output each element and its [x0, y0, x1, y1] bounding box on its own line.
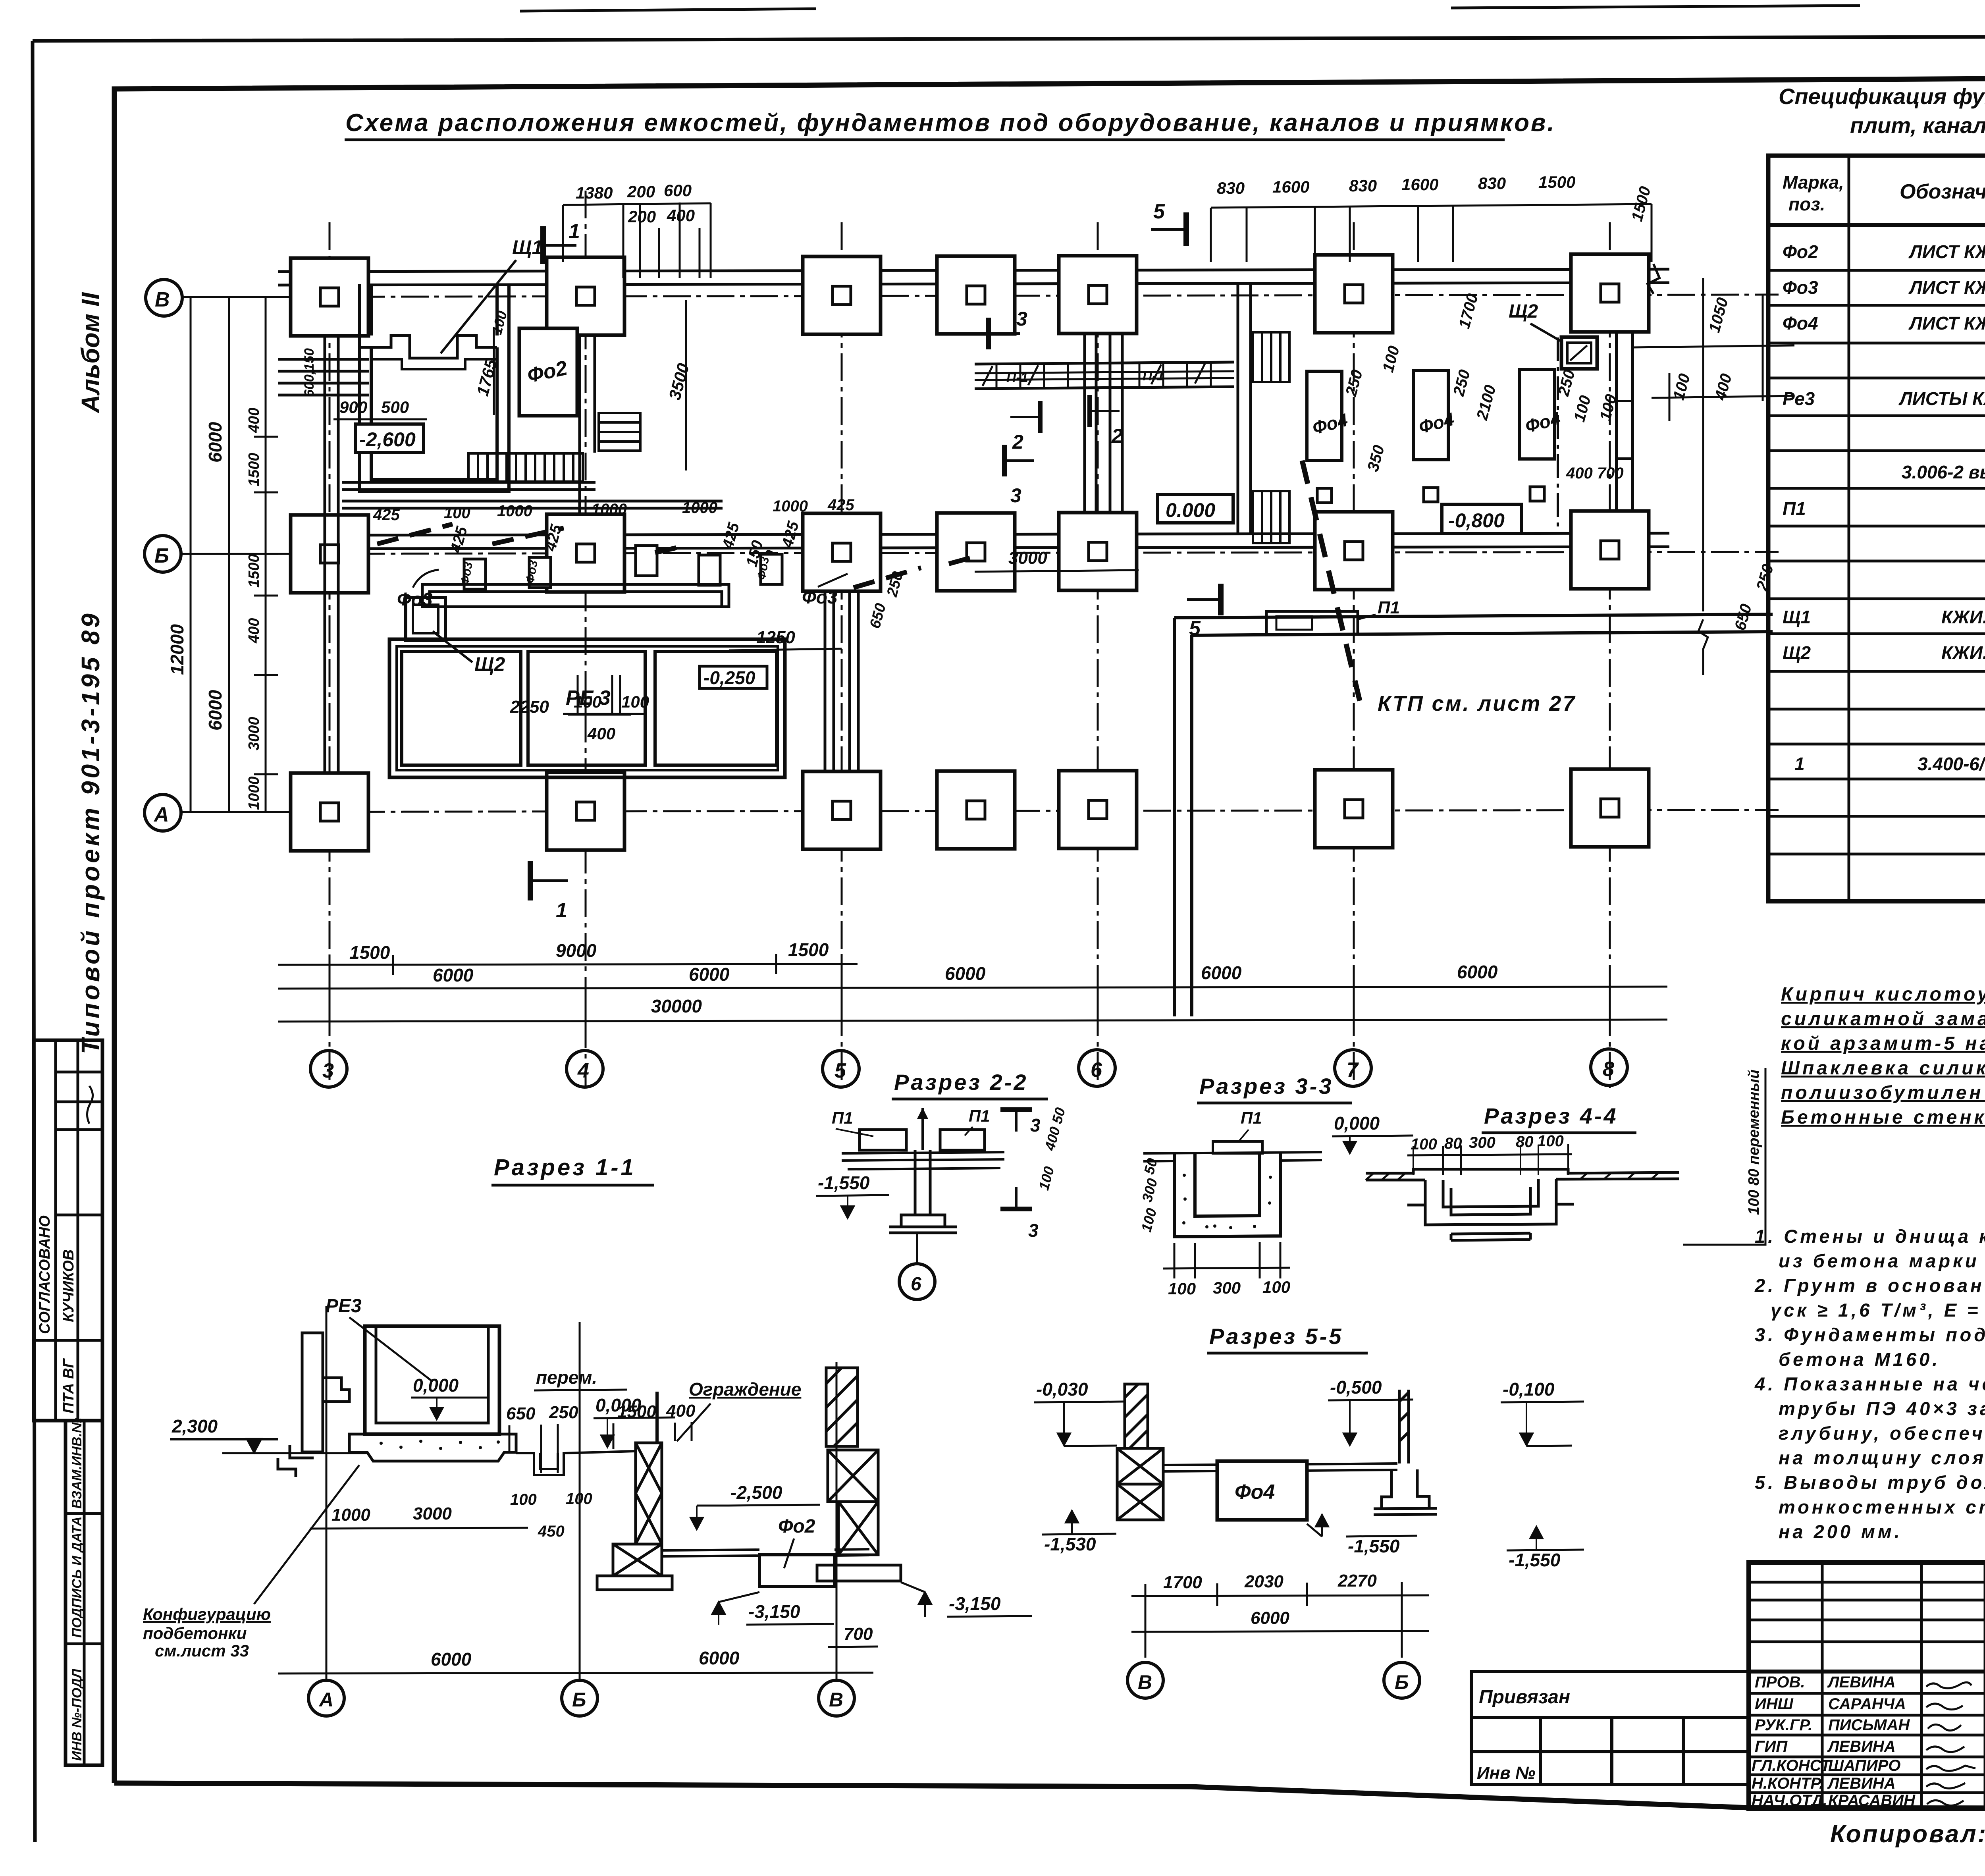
cell 3 — [655, 652, 777, 765]
footing Б6 — [1059, 513, 1137, 590]
svg-text:-0,250: -0,250 — [703, 667, 755, 688]
section 1-1 note Конфигурацию — [143, 1605, 271, 1660]
foundation beams row Б — [330, 533, 1669, 549]
svg-text:300: 300 — [1469, 1134, 1495, 1151]
section 1-1 left column — [278, 1333, 349, 1477]
section 1-1 Фо2 — [759, 1555, 834, 1587]
section 1-1 right wall column — [817, 1368, 901, 1581]
svg-text:Разрез 4-4: Разрез 4-4 — [1484, 1103, 1618, 1128]
section 4-4 leader from notes — [1683, 1068, 1765, 1245]
svg-text:400: 400 — [246, 618, 262, 644]
svg-text:100 80 переменный: 100 80 переменный — [1746, 1070, 1762, 1215]
svg-text:3: 3 — [1016, 308, 1027, 330]
left margin stamp table upper — [34, 1040, 102, 1421]
svg-text:9000: 9000 — [556, 940, 597, 961]
svg-text:500: 500 — [381, 398, 409, 416]
svg-text:перем.: перем. — [536, 1367, 597, 1388]
svg-text:кой арзамит-5 на глубину 15: кой арзамит-5 на глубину 15 мм — [1781, 1033, 1985, 1054]
svg-text:ВЗАМ.ИНВ.№: ВЗАМ.ИНВ.№ — [69, 1417, 85, 1509]
section mark 1 bottom — [530, 861, 568, 900]
footing А4 — [547, 772, 624, 850]
svg-text:Щ2: Щ2 — [1509, 301, 1538, 322]
svg-text:1500: 1500 — [349, 942, 390, 963]
svg-text:ЛИСТЫ КЖ-34,35: ЛИСТЫ КЖ-34,35 — [1898, 388, 1985, 409]
footing А7 — [1315, 770, 1393, 848]
footing В5а — [937, 256, 1015, 334]
footing А8 — [1571, 769, 1649, 847]
specification table grid — [1768, 156, 1985, 901]
section 3-3 dims left rotated — [1138, 1157, 1160, 1234]
svg-text:Кирпич кислотоупорный в 1/4 к: Кирпич кислотоупорный в 1/4 кирпича на — [1781, 984, 1985, 1005]
svg-text:6000: 6000 — [205, 422, 225, 463]
svg-text:РЕ3: РЕ3 — [326, 1296, 362, 1317]
svg-text:3000: 3000 — [1008, 548, 1047, 568]
svg-text:6: 6 — [1091, 1059, 1102, 1082]
svg-text:700: 700 — [844, 1624, 873, 1644]
equipment foundation Фо4 #2 — [1413, 370, 1448, 460]
svg-text:250: 250 — [549, 1403, 578, 1422]
footing А3 — [291, 773, 368, 851]
section 3-3 dims bottom — [1163, 1242, 1290, 1278]
axis circle 6 — [1079, 1050, 1115, 1086]
svg-text:1000: 1000 — [331, 1505, 370, 1525]
svg-text:Разрез 2-2: Разрез 2-2 — [894, 1070, 1028, 1095]
svg-text:425: 425 — [827, 496, 854, 514]
top dim chain right 830/1600 — [1217, 173, 1575, 197]
column footings grid — [291, 254, 1649, 851]
svg-text:Щ2: Щ2 — [1783, 642, 1811, 663]
svg-text:Фо4: Фо4 — [1783, 313, 1818, 334]
section 5-5 dims — [1131, 1582, 1429, 1642]
dim 3500 — [685, 300, 687, 470]
svg-text:6000: 6000 — [431, 1649, 472, 1670]
svg-text:ПРОВ.: ПРОВ. — [1755, 1674, 1805, 1691]
svg-text:В: В — [1138, 1671, 1152, 1693]
svg-text:А: А — [153, 803, 169, 826]
svg-text:3: 3 — [322, 1059, 334, 1082]
svg-text:плит, каналов и приямков.: плит, каналов и приямков. — [1850, 113, 1985, 138]
section 2-2 circle 6 — [916, 1233, 918, 1263]
svg-text:400: 400 — [666, 1401, 696, 1421]
svg-text:300: 300 — [1213, 1278, 1241, 1297]
section 1-1 tank РЕ3 — [365, 1326, 499, 1434]
svg-text:650: 650 — [506, 1404, 536, 1423]
svg-text:1: 1 — [1794, 754, 1805, 774]
axis circle 3 — [310, 1051, 347, 1087]
svg-text:силикатной замазке с разделкой: силикатной замазке с разделкой швов зама… — [1781, 1008, 1985, 1030]
svg-text:Конфигурацию: Конфигурацию — [143, 1605, 271, 1623]
section 3-3 top slab — [1143, 1152, 1322, 1161]
stair main hatch — [468, 453, 583, 482]
right wall axis 8 В-Б — [1617, 333, 1632, 512]
dash-dot partition right room — [1557, 337, 1559, 532]
svg-text:П-1: П-1 — [1006, 370, 1028, 385]
svg-text:Схема расположения емкостей,: Схема расположения емкостей, фундаментов… — [345, 109, 1556, 137]
svg-text:Привязан: Привязан — [1479, 1687, 1570, 1708]
level box -0.250 — [700, 666, 767, 688]
svg-text:поз.: поз. — [1788, 194, 1825, 214]
axis circle 4 — [567, 1051, 603, 1087]
svg-text:Инв №: Инв № — [1477, 1763, 1535, 1783]
svg-text:трубы ПЭ 40×3 заложить в: трубы ПЭ 40×3 заложить в конструкцию пол… — [1779, 1398, 1985, 1419]
svg-text:6000: 6000 — [945, 963, 986, 984]
svg-text:3000: 3000 — [246, 717, 262, 750]
svg-text:6000: 6000 — [1457, 962, 1498, 982]
section 2-2 slab — [842, 1152, 1004, 1169]
svg-text:П1: П1 — [1241, 1109, 1262, 1127]
grid axis dash-dot lines — [183, 191, 1779, 1088]
svg-text:1380: 1380 — [576, 183, 613, 202]
svg-text:ЛЕВИНА: ЛЕВИНА — [1827, 1674, 1896, 1691]
axis circle А — [145, 794, 181, 831]
svg-text:глубину, обеспечивающую замон: глубину, обеспечивающую замоноличивание … — [1779, 1423, 1985, 1444]
equipment foundation Фо4 #3 — [1520, 370, 1555, 459]
svg-text:бетона М160.: бетона М160. — [1779, 1349, 1940, 1370]
svg-text:200: 200 — [627, 182, 655, 201]
section 5-5 slab lines — [1163, 1463, 1397, 1471]
svg-text:ЛЕВИНА: ЛЕВИНА — [1827, 1775, 1896, 1792]
svg-text:-1,530: -1,530 — [1044, 1534, 1096, 1554]
svg-text:П1: П1 — [969, 1107, 990, 1125]
section 2-2 dims right — [1035, 1106, 1068, 1192]
svg-text:100: 100 — [566, 1490, 592, 1508]
svg-text:Разрез 1-1: Разрез 1-1 — [494, 1155, 636, 1180]
svg-text:Марка,: Марка, — [1783, 172, 1844, 193]
section 5-5 axis circles — [1145, 1642, 1147, 1662]
long channel below Б with Щ2 — [406, 584, 729, 640]
break mark on В beam — [1648, 264, 1659, 294]
svg-text:-0,030: -0,030 — [1036, 1379, 1088, 1400]
svg-text:П1: П1 — [1378, 598, 1400, 617]
svg-text:ЛИСТ КЖ-27: ЛИСТ КЖ-27 — [1908, 241, 1985, 262]
section 1-1 axis circle Б — [562, 1680, 597, 1716]
section 3-3 U channel — [1174, 1153, 1280, 1237]
svg-text:830: 830 — [1217, 179, 1245, 197]
section 2-2 П1 plates — [860, 1130, 985, 1150]
cell 1 — [402, 652, 521, 765]
svg-text:6: 6 — [911, 1274, 921, 1295]
section 5-5 right column — [1374, 1390, 1437, 1515]
section marks 2 and 3 — [989, 318, 1020, 349]
section mark 1 top — [543, 226, 576, 264]
stairs hatch lower central — [1253, 491, 1289, 543]
svg-text:-1,550: -1,550 — [1509, 1550, 1561, 1570]
section 1-1 dims 650 250 1500 400 — [506, 1401, 696, 1423]
svg-text:6000: 6000 — [689, 964, 730, 985]
svg-text:Б: Б — [154, 544, 169, 567]
svg-text:600,150: 600,150 — [302, 348, 317, 397]
svg-text:Бетонные стенки и днище канала: Бетонные стенки и днище канала — [1781, 1107, 1985, 1128]
svg-text:Н.КОНТР.: Н.КОНТР. — [1752, 1775, 1823, 1792]
top dims 1380 200 600 — [576, 181, 695, 226]
svg-text:1600: 1600 — [1401, 175, 1438, 194]
svg-text:Спецификация фундаментов под: Спецификация фундаментов под оборудовани… — [1779, 84, 1985, 109]
dashed pipe diagonals left — [377, 524, 981, 588]
section 1-1 X-braced column at Б — [597, 1443, 672, 1590]
left dimension chains — [181, 297, 278, 812]
section 1-1 tank base slab — [349, 1434, 516, 1461]
svg-text:см.лист 33: см.лист 33 — [155, 1641, 249, 1660]
svg-text:1500: 1500 — [246, 453, 262, 486]
svg-text:Б: Б — [572, 1689, 586, 1711]
axis circle 7 — [1335, 1050, 1371, 1086]
svg-text:В: В — [155, 288, 170, 311]
axis circle 8 — [1591, 1049, 1627, 1085]
section 2-2 marks 3 — [1000, 1110, 1032, 1132]
svg-text:1500: 1500 — [1538, 173, 1575, 191]
svg-text:1600: 1600 — [1272, 177, 1309, 196]
footing А6 — [1059, 771, 1137, 848]
svg-text:100: 100 — [1168, 1279, 1196, 1298]
specification table title — [1779, 84, 1985, 138]
notes numbered list — [1754, 1226, 1985, 1542]
svg-text:2270: 2270 — [1337, 1571, 1377, 1591]
svg-text:5. Выводы труб должны быть: 5. Выводы труб должны быть защищены отре… — [1755, 1472, 1985, 1493]
svg-text:900: 900 — [339, 398, 367, 416]
axis circle В — [146, 280, 182, 316]
svg-text:5: 5 — [1153, 200, 1165, 223]
svg-text:ГЛ.КОНСТ: ГЛ.КОНСТ — [1752, 1757, 1832, 1774]
П1 channel piece near Б — [1266, 611, 1358, 634]
svg-text:100: 100 — [1411, 1136, 1437, 1153]
section 4-4 dims above — [1411, 1132, 1564, 1153]
section 4-4 slab with trench — [1366, 1169, 1679, 1240]
svg-text:Фо3: Фо3 — [1783, 277, 1818, 298]
svg-text:γск ≥ 1,6 Т/м³, Е = 14,71 МПа: γск ≥ 1,6 Т/м³, Е = 14,71 МПа, J=28°. — [1771, 1300, 1985, 1321]
svg-text:Разрез 5-5: Разрез 5-5 — [1209, 1324, 1343, 1349]
svg-text:РУК.ГР.: РУК.ГР. — [1755, 1716, 1812, 1734]
section 1-1 trench between tank and Б — [516, 1451, 635, 1475]
svg-text:КЖИ.Щ1: КЖИ.Щ1 — [1941, 642, 1985, 663]
svg-text:1700: 1700 — [1163, 1573, 1202, 1592]
canal walls above Б — [342, 482, 723, 508]
svg-text:Фо2: Фо2 — [1783, 241, 1818, 262]
left margin stamp table lower — [66, 1421, 102, 1765]
svg-text:Щ1: Щ1 — [1783, 607, 1811, 627]
svg-text:ГИП: ГИП — [1755, 1738, 1788, 1755]
svg-text:РЕ 3: РЕ 3 — [566, 686, 611, 710]
footing Б5 — [803, 513, 881, 591]
svg-text:ПИСЬМАН: ПИСЬМАН — [1828, 1716, 1910, 1734]
vertical canal axis 6 — [1085, 334, 1122, 513]
svg-text:-3,150: -3,150 — [949, 1593, 1001, 1614]
svg-text:30000: 30000 — [651, 996, 702, 1016]
svg-text:1500: 1500 — [617, 1402, 656, 1421]
left stamp rotated labels — [37, 1215, 85, 1761]
svg-text:5: 5 — [834, 1059, 846, 1082]
svg-text:1500: 1500 — [246, 554, 262, 588]
svg-text:Типовой проект 901-3-195 89: Типовой проект 901-3-195 89 — [76, 611, 105, 1054]
section 1-1 axis circle А — [308, 1680, 344, 1716]
svg-text:450: 450 — [538, 1523, 565, 1540]
svg-text:0,000: 0,000 — [1334, 1113, 1380, 1134]
svg-text:А: А — [318, 1689, 333, 1711]
привязан box — [1471, 1672, 1749, 1785]
dimension row 425..1000 — [373, 496, 854, 578]
svg-text:ПТА ВГ: ПТА ВГ — [60, 1358, 77, 1413]
tank РЕ3 — [389, 639, 785, 777]
svg-text:1000: 1000 — [246, 776, 262, 810]
svg-text:3: 3 — [1030, 1115, 1041, 1136]
level box 0.000 — [1158, 494, 1233, 523]
svg-text:Фо4: Фо4 — [1235, 1481, 1275, 1504]
specification table rows text — [1783, 231, 1985, 774]
svg-text:ЛИСТ КЖ-27: ЛИСТ КЖ-27 — [1908, 277, 1985, 298]
svg-text:В: В — [829, 1689, 843, 1711]
svg-text:6000: 6000 — [1251, 1608, 1289, 1628]
section 5-5 left hatched wall — [1117, 1384, 1163, 1520]
svg-text:0,000: 0,000 — [413, 1375, 459, 1396]
footing А5 — [803, 771, 881, 849]
svg-text:6000: 6000 — [1201, 962, 1242, 983]
svg-text:3.006-2 вып.II-2: 3.006-2 вып.II-2 — [1902, 462, 1985, 482]
central canal horizontal with П1 plates — [975, 362, 1234, 389]
panel Щ2 plan — [1561, 337, 1597, 369]
footing А5а — [937, 771, 1015, 849]
svg-text:3: 3 — [1010, 484, 1021, 507]
svg-text:Шпаклевка силикатной замазко: Шпаклевка силикатной замазкой - δ=5мм; — [1781, 1058, 1985, 1079]
wall along axis 5 below tank — [825, 591, 858, 771]
svg-text:ИНВ №-ПОДЛ: ИНВ №-ПОДЛ — [69, 1669, 85, 1761]
svg-text:П1: П1 — [832, 1109, 853, 1127]
left wall along axis 3 — [325, 336, 338, 773]
section 1-1 axis circle В — [819, 1680, 854, 1716]
section 5-5 Фо4 — [1217, 1461, 1307, 1520]
svg-text:3.400-6/76: 3.400-6/76 — [1918, 754, 1985, 774]
footing В6 — [1059, 256, 1137, 334]
svg-text:1000: 1000 — [773, 497, 808, 515]
axis circle 5 — [823, 1051, 859, 1087]
svg-text:НАЧ.ОТД.: НАЧ.ОТД. — [1752, 1792, 1827, 1809]
equipment foundation Фо4 #1 — [1307, 371, 1342, 461]
svg-text:ПОДПИСЬ И ДАТА: ПОДПИСЬ И ДАТА — [69, 1516, 85, 1638]
svg-text:ИНШ: ИНШ — [1755, 1695, 1794, 1713]
page top edge marks — [520, 5, 1985, 11]
left stamp signature squiggle — [87, 1086, 93, 1124]
svg-text:2. Грунт в основании емкости: 2. Грунт в основании емкости РЕ3 уплотни… — [1754, 1275, 1985, 1296]
svg-text:подбетонки: подбетонки — [143, 1624, 247, 1643]
svg-text:тонкостенных стальных труб.: тонкостенных стальных труб. Трубы выводя… — [1779, 1496, 1985, 1517]
verticals left signature table — [1821, 1562, 1824, 1809]
svg-text:-0,500: -0,500 — [1330, 1377, 1382, 1398]
svg-text:100: 100 — [444, 504, 470, 522]
svg-text:ЛИСТ КЖ-27: ЛИСТ КЖ-27 — [1908, 313, 1985, 334]
svg-text:12000: 12000 — [167, 624, 187, 675]
svg-text:1. Стены и днища каналов и: 1. Стены и днища каналов и приямков выпо… — [1755, 1226, 1985, 1247]
svg-text:1: 1 — [569, 220, 580, 243]
footing В3 — [291, 258, 368, 336]
anchor squares below Фо4 — [1317, 487, 1544, 503]
svg-text:425: 425 — [373, 506, 400, 524]
svg-text:2: 2 — [1012, 431, 1023, 453]
svg-text:КРАСАВИН: КРАСАВИН — [1828, 1792, 1916, 1809]
svg-text:САРАНЧА: САРАНЧА — [1828, 1695, 1906, 1713]
svg-text:ЛЕВИНА: ЛЕВИНА — [1827, 1738, 1896, 1755]
notes block upper underlined — [1781, 984, 1985, 1128]
svg-text:100: 100 — [1262, 1278, 1290, 1296]
svg-text:-0,100: -0,100 — [1503, 1379, 1555, 1400]
svg-text:Обозначение: Обозначение — [1900, 180, 1985, 203]
svg-text:Щ1: Щ1 — [512, 236, 543, 258]
tall dimension line right — [1632, 278, 1794, 675]
svg-text:Б: Б — [1395, 1671, 1409, 1693]
svg-text:-2,500: -2,500 — [730, 1482, 782, 1503]
svg-text:3000: 3000 — [413, 1504, 452, 1523]
svg-text:Копировал: Корецкая: Копировал: Корецкая — [1830, 1820, 1985, 1848]
svg-text:П1: П1 — [1783, 498, 1806, 519]
КТП room walls — [1174, 614, 1773, 1016]
svg-text:из бетона марки 150.: из бетона марки 150. — [1779, 1250, 1985, 1271]
svg-text:6000: 6000 — [205, 690, 225, 731]
svg-text:Ограждение: Ограждение — [689, 1379, 801, 1400]
footing Б5а — [937, 513, 1015, 591]
svg-text:1000: 1000 — [497, 502, 532, 520]
axis circle Б — [145, 536, 181, 572]
svg-text:-1,550: -1,550 — [1348, 1536, 1400, 1556]
svg-text:4: 4 — [577, 1059, 589, 1082]
level box -0.800 — [1442, 504, 1521, 534]
svg-text:1000: 1000 — [682, 499, 717, 517]
svg-text:Альбом II: Альбом II — [76, 292, 105, 414]
svg-text:6000: 6000 — [699, 1648, 740, 1668]
svg-text:8: 8 — [1603, 1058, 1614, 1081]
footing В5 — [803, 256, 881, 334]
footing В7 — [1315, 255, 1393, 333]
svg-text:4. Показанные на чертеже пу: 4. Показанные на чертеже пунктиром полиэ… — [1754, 1373, 1985, 1394]
signatures squiggles — [1926, 1682, 1975, 1805]
svg-text:ШАПИРО: ШАПИРО — [1828, 1757, 1900, 1774]
section 1-1 slab lines to Фо2 — [662, 1549, 869, 1556]
section mark 5 top — [1151, 212, 1186, 246]
svg-text:СОГЛАСОВАНО: СОГЛАСОВАНО — [37, 1215, 53, 1334]
wall along axis 4 upper — [580, 335, 595, 514]
svg-text:400 700: 400 700 — [1566, 465, 1624, 482]
svg-text:на толщину слоя над трубой: на толщину слоя над трубой не менее 20 м… — [1779, 1447, 1985, 1468]
svg-text:КТП см. лист 27: КТП см. лист 27 — [1378, 692, 1576, 715]
svg-text:-1,550: -1,550 — [818, 1172, 870, 1193]
svg-text:2,300: 2,300 — [172, 1416, 218, 1436]
svg-text:-3,150: -3,150 — [748, 1601, 800, 1622]
equipment foundation Фо2 — [519, 328, 577, 416]
svg-text:Ре3: Ре3 — [1783, 388, 1815, 409]
svg-text:1500: 1500 — [788, 939, 829, 960]
footing В4 — [547, 257, 624, 335]
svg-text:-0,800: -0,800 — [1448, 509, 1505, 532]
svg-text:2030: 2030 — [1244, 1572, 1284, 1591]
svg-text:Щ2: Щ2 — [474, 653, 505, 675]
bottom dimension chains — [278, 954, 1667, 1032]
svg-text:Фо2: Фо2 — [778, 1516, 815, 1537]
svg-text:2: 2 — [1111, 425, 1123, 447]
pit room walls — [359, 284, 509, 492]
svg-text:400: 400 — [246, 408, 262, 433]
cell 2 — [528, 652, 645, 765]
svg-text:полиизобутилен марки ПСГ δ=2,: полиизобутилен марки ПСГ δ=2,5 в 2 слоя … — [1781, 1082, 1985, 1103]
svg-text:80: 80 — [1516, 1133, 1534, 1151]
footing Б8 — [1571, 511, 1649, 589]
svg-text:1000: 1000 — [592, 501, 627, 518]
dim 1765 — [493, 330, 495, 415]
svg-text:100: 100 — [1537, 1132, 1564, 1150]
svg-text:600: 600 — [664, 181, 692, 200]
svg-text:830: 830 — [1478, 174, 1506, 193]
svg-text:КЖИ.Щ1: КЖИ.Щ1 — [1941, 607, 1985, 627]
stair upper small — [599, 413, 640, 451]
section 2-2 pedestal — [889, 1150, 957, 1233]
rotated dims right rooms — [1342, 185, 1777, 632]
dims 100 100 400 — [574, 692, 649, 743]
level box -2.600 — [355, 424, 424, 453]
